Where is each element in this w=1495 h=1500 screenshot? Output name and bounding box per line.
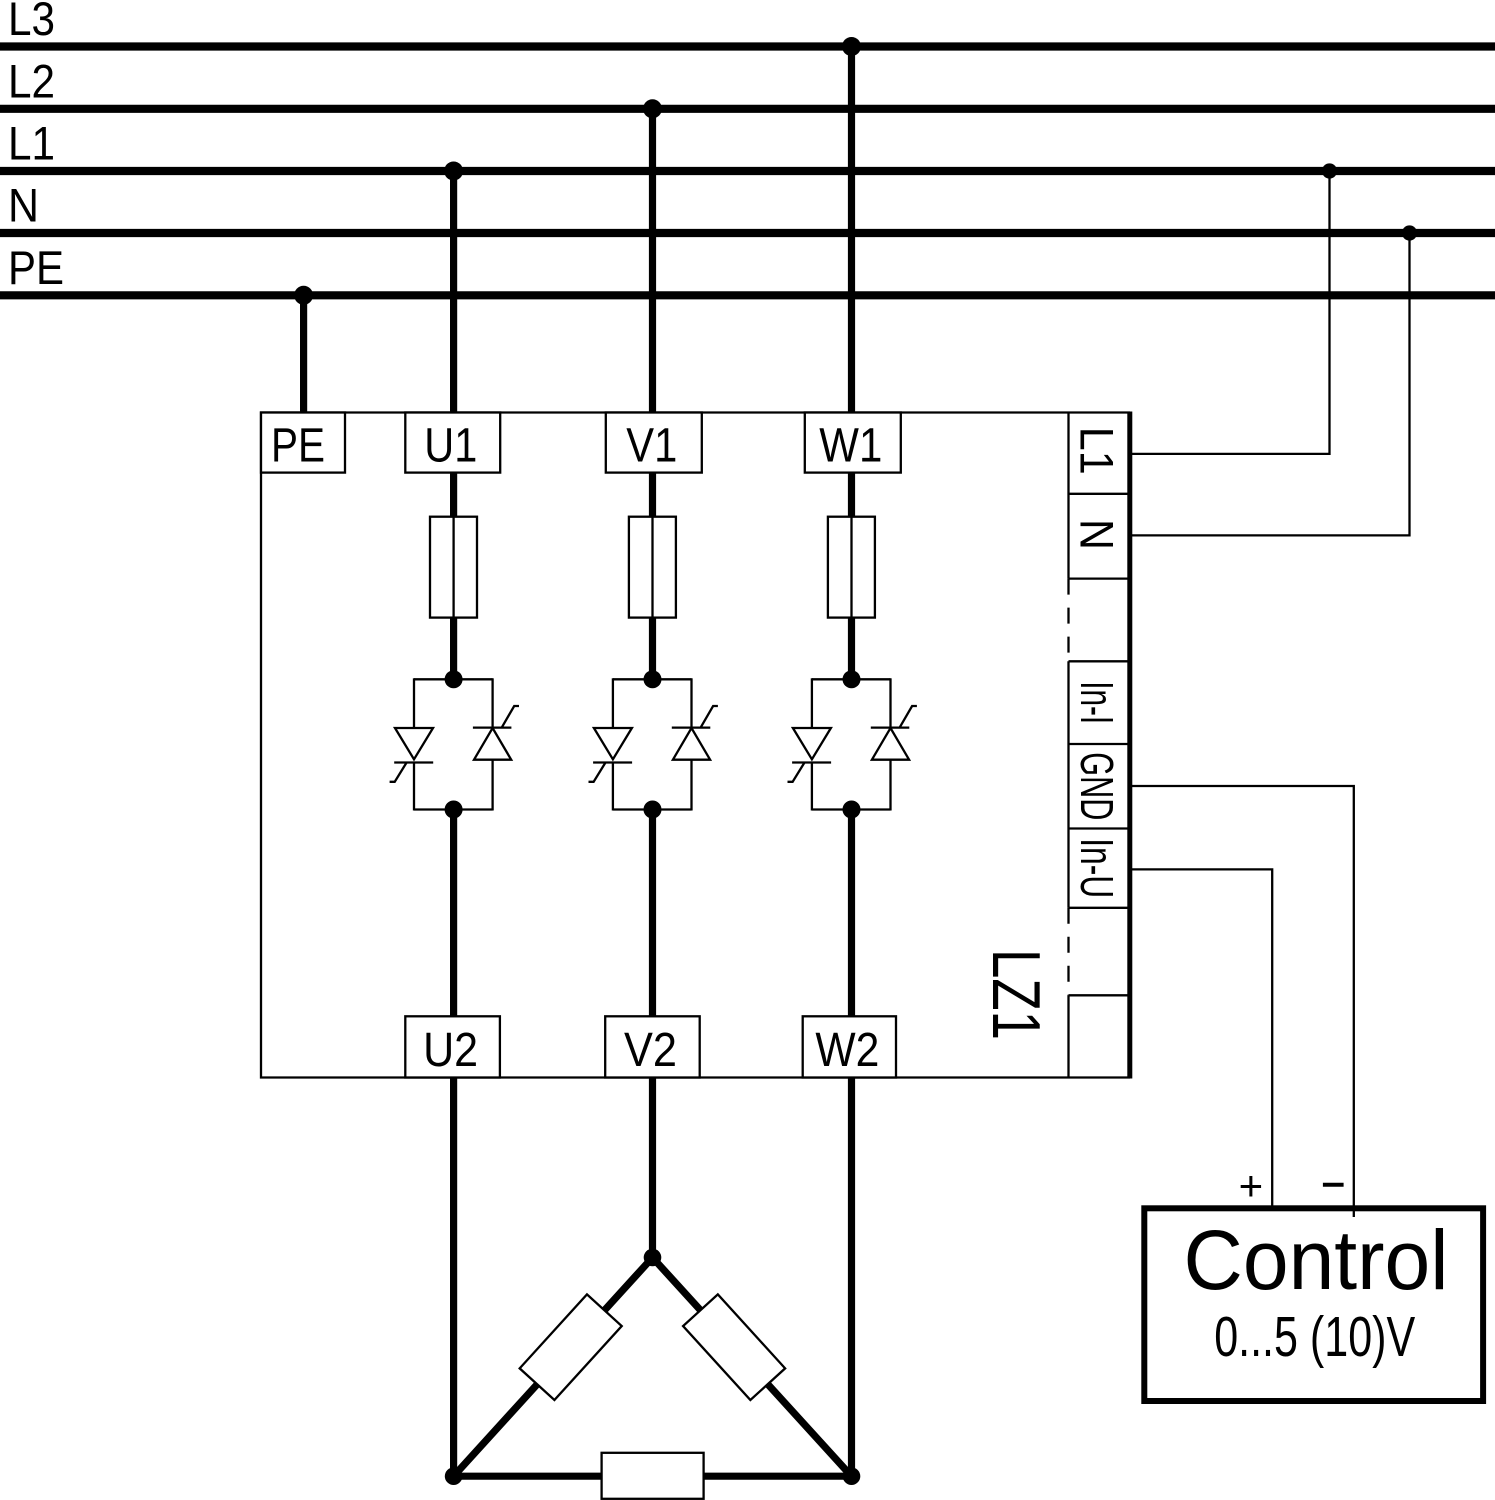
thyristor module U: node top [445,670,463,688]
junction on PE (PE tap) [294,286,313,305]
svg-text:V2: V2 [624,1024,677,1077]
thyristor module W: node top [843,670,861,688]
wire U1 terminal to fuse [450,473,457,517]
svg-text:PE: PE [271,420,325,473]
thyristor module U: right branch lower wire [491,760,493,811]
svg-text:U2: U2 [423,1024,478,1077]
junction on L1 (control supply tap) [1322,163,1337,178]
wire V2 to delta apex [649,1078,656,1258]
thyristor module U: top rail [414,678,493,680]
svg-text:V1: V1 [626,420,677,473]
svg-text:W2: W2 [815,1024,879,1077]
thyristor module U: node bottom [445,801,463,819]
thyristor module V: right branch upper wire [690,678,692,727]
bus line PE [0,291,1495,299]
fuse FW [828,517,875,618]
thyristor module V: left branch upper wire [612,678,614,728]
thyristor module W: right branch upper wire [889,678,891,727]
delta edge apex-left [454,1258,653,1477]
svg-text:L1: L1 [8,117,55,170]
wire L1 to U1 [450,171,457,413]
fuse FU [430,517,477,618]
svg-text:L3: L3 [8,0,55,45]
terminal strip left edge (dashed parts) [1067,579,1069,662]
terminal strip separators [1069,493,1131,495]
thyristor module V: node bottom [644,801,662,819]
terminal W1 [805,413,901,473]
wire V1 terminal to fuse [649,473,656,517]
terminal U1 [405,413,500,473]
wire fuse to thyristor module V [649,618,656,680]
device box LZ1 outline [261,413,1130,1078]
resistor load bottom [602,1453,704,1499]
svg-text:GND: GND [1071,752,1123,820]
thyristor module V: right branch lower wire [690,760,692,811]
delta edge bottom [454,1473,852,1480]
thyristor module U: left branch upper wire [413,678,415,728]
thyristor module U: bottom rail [414,808,493,810]
thyristor module V: left branch lower wire [612,763,614,811]
resistor load right [683,1294,785,1400]
thyristor Vb anode bar [672,726,711,728]
thyristor module W: left branch lower wire [811,763,813,811]
thyristor Vb (right, cathode up) [673,728,710,760]
terminal U2 [405,1016,500,1077]
junction on N (control supply tap) [1402,225,1417,240]
thyristor Va gate [589,763,606,782]
thyristor module W: left branch upper wire [811,678,813,728]
thyristor Wa cathode bar [792,761,831,763]
thyristor Ub (right, cathode up) [474,728,511,760]
thyristor Wb gate [900,706,917,727]
bus line L3 [0,42,1495,50]
thyristor Wb anode bar [871,726,910,728]
bus line L1 [0,167,1495,175]
device box LZ1 right edge [1127,412,1132,1079]
wire L1 terminal to L1 bus [1130,171,1330,454]
svg-text:0...5 (10)V: 0...5 (10)V [1214,1305,1415,1369]
thyristor module U: left branch lower wire [413,763,415,811]
thyristor module W: bottom rail [812,808,891,810]
wire GND terminal to control minus [1130,786,1354,1217]
terminal strip left edge (solid parts) [1067,413,1069,579]
thyristor Va cathode bar [593,761,632,763]
svg-text:L1: L1 [1071,427,1124,475]
svg-text:PE: PE [8,241,64,294]
wire fuse to thyristor module W [848,618,855,680]
bus line N [0,229,1495,237]
wire N terminal to N bus [1130,233,1410,535]
node delta bottom-right [843,1467,861,1485]
svg-text:L2: L2 [8,54,55,107]
thyristor Ua cathode bar [394,761,433,763]
resistor load left [520,1294,622,1400]
control unit box [1144,1208,1483,1401]
thyristor Vb gate [701,706,718,727]
thyristor module W: top rail [812,678,891,680]
svg-text:LZ1: LZ1 [978,949,1054,1040]
thyristor Wa (left, cathode down) [793,728,831,759]
thyristor module W: right branch lower wire [889,760,891,811]
terminal PE [261,413,345,473]
wire fuse to thyristor module U [450,618,457,680]
svg-text:In-U: In-U [1071,838,1123,898]
wire U2 to delta [450,1078,457,1477]
thyristor Ua (left, cathode down) [395,728,433,759]
svg-text:In-I: In-I [1071,681,1123,724]
wire In-U terminal to control plus [1130,869,1272,1206]
wire L2 to V1 [649,109,656,413]
junction on L3 (W phase tap) [842,37,861,56]
wire thyristor module U to U2 terminal [450,810,457,1017]
svg-text:N: N [8,179,39,232]
wire W2 to delta [848,1078,855,1477]
terminal V1 [606,413,702,473]
wire L3 to W1 [848,47,855,413]
delta edge apex-right [653,1258,852,1477]
label minus [1323,1183,1344,1187]
wire thyristor module V to V2 terminal [649,810,656,1017]
thyristor module U: right branch upper wire [491,678,493,727]
thyristor module W: node bottom [843,801,861,819]
thyristor module V: node top [644,670,662,688]
thyristor Wb (right, cathode up) [872,728,909,760]
thyristor Wa gate [788,763,805,782]
junction on L2 (V phase tap) [643,99,662,118]
svg-text:U1: U1 [424,420,477,473]
thyristor module V: bottom rail [613,808,692,810]
svg-text:Control: Control [1184,1213,1449,1307]
thyristor Ub gate [502,706,519,727]
thyristor Ua gate [390,763,407,782]
node delta apex [644,1249,662,1267]
wire W1 terminal to fuse [848,473,855,517]
svg-text:W1: W1 [819,420,882,473]
terminal V2 [605,1016,700,1077]
thyristor Ub anode bar [473,726,512,728]
thyristor module V: top rail [613,678,692,680]
node delta bottom-left [445,1467,463,1485]
wire thyristor module W to W2 terminal [848,810,855,1017]
wire PE drop [300,295,307,412]
svg-text:+: + [1239,1162,1264,1209]
thyristor Va (left, cathode down) [594,728,632,759]
terminal W2 [803,1016,896,1077]
bus line L2 [0,105,1495,113]
svg-text:N: N [1071,519,1124,550]
fuse FV [629,517,676,618]
junction on L1 (U phase tap) [444,162,463,181]
